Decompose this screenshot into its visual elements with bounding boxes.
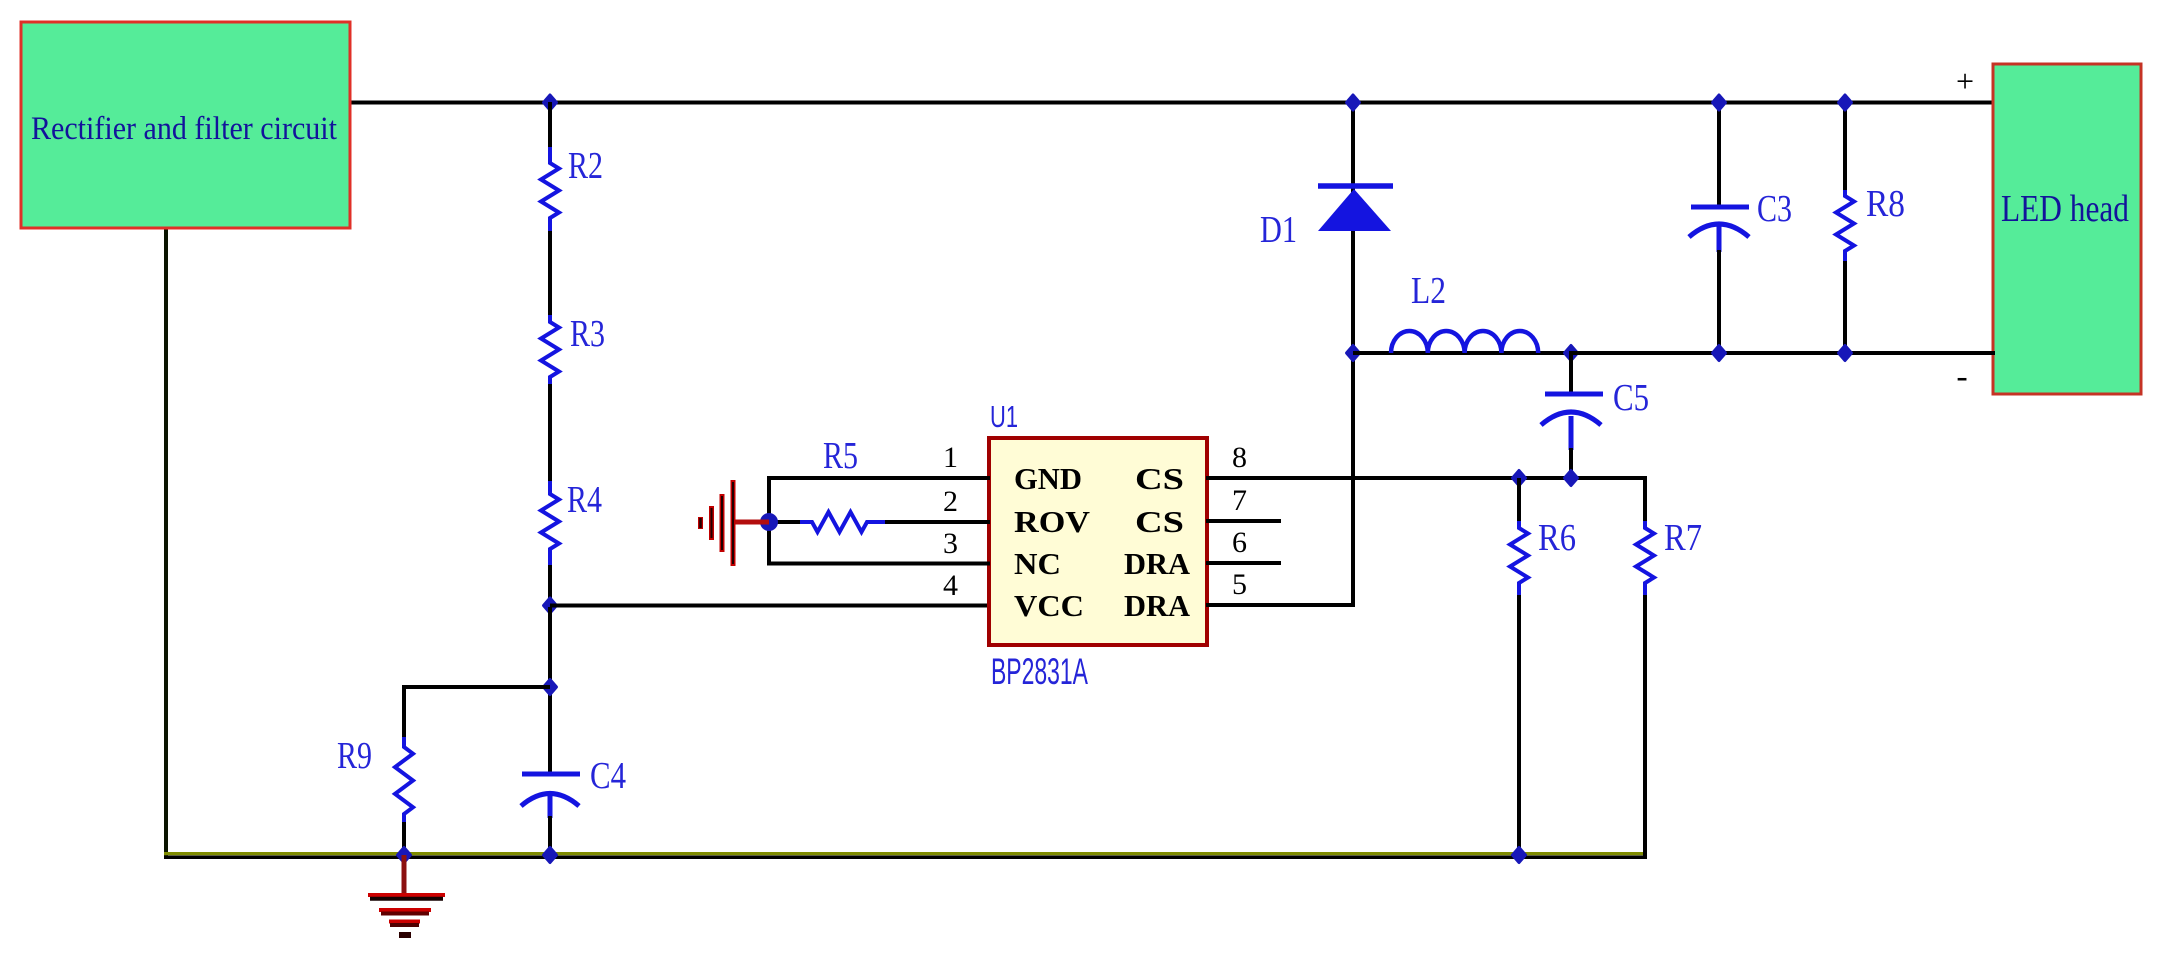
- svg-text:C5: C5: [1613, 377, 1649, 419]
- wire R9 branch vertical continuation: [548, 607, 552, 776]
- resistor R3: [541, 315, 559, 384]
- resistor R8: [1836, 190, 1854, 261]
- svg-text:NC: NC: [1014, 546, 1061, 581]
- svg-text:R5: R5: [823, 435, 858, 477]
- block Rectifier and filter circuit: [21, 22, 350, 228]
- svg-text:6: 6: [1232, 526, 1247, 559]
- svg-text:-: -: [1956, 358, 1967, 395]
- inductor L2: [1391, 331, 1538, 353]
- node bottom C4 junction: [544, 848, 557, 863]
- svg-text:1: 1: [943, 441, 958, 474]
- resistor R7: [1636, 521, 1654, 595]
- wire pin2: [769, 520, 802, 524]
- svg-text:3: 3: [943, 527, 958, 560]
- svg-text:L2: L2: [1411, 270, 1446, 312]
- svg-text:LED head: LED head: [2001, 188, 2129, 230]
- svg-text:+: +: [1956, 63, 1974, 99]
- wire pin7 stub: [1206, 519, 1281, 523]
- capacitor C5: [1569, 351, 1573, 394]
- svg-text:VCC: VCC: [1014, 588, 1084, 623]
- svg-text:DRA: DRA: [1124, 588, 1191, 623]
- wire bottom bus: [164, 855, 1647, 859]
- chip U1 body: [989, 438, 1207, 645]
- svg-text:8: 8: [1232, 441, 1247, 474]
- ground earth symbol: [402, 855, 407, 894]
- svg-text:D1: D1: [1260, 209, 1297, 251]
- svg-text:CS: CS: [1135, 461, 1184, 496]
- svg-text:5: 5: [1232, 568, 1247, 601]
- svg-text:BP2831A: BP2831A: [991, 651, 1088, 692]
- wire output minus bus: [1571, 351, 1995, 355]
- wire R9 branch horizontal: [404, 685, 550, 689]
- svg-text:Rectifier and filter circuit: Rectifier and filter circuit: [31, 111, 337, 147]
- node top D1 junction: [1347, 95, 1360, 110]
- resistor R6: [1510, 521, 1528, 595]
- node R9 branch junction: [544, 680, 557, 695]
- resistor R4: [541, 481, 559, 565]
- svg-text:U1: U1: [990, 399, 1018, 434]
- wire top bus: [350, 101, 1995, 105]
- wire R6 vertical: [1517, 478, 1521, 523]
- resistor R2: [541, 147, 559, 231]
- node L2 left junction: [1347, 346, 1360, 361]
- svg-text:R8: R8: [1866, 183, 1905, 225]
- svg-text:R7: R7: [1664, 517, 1702, 559]
- wire pin8: [1206, 476, 1645, 480]
- node R6 bottom junction: [1513, 848, 1526, 863]
- node R8 bottom junction: [1839, 346, 1852, 361]
- wire VCC pin4: [550, 604, 990, 608]
- svg-text:4: 4: [943, 569, 958, 602]
- wire L2 line: [1353, 351, 1571, 355]
- diode D1: [1318, 183, 1393, 189]
- node pin2 junction: [760, 513, 778, 531]
- svg-text:R9: R9: [337, 735, 372, 777]
- resistor R9: [395, 737, 413, 822]
- svg-text:DRA: DRA: [1124, 546, 1191, 581]
- wire R2 column vertical: [548, 102, 552, 149]
- node bottom R9 junction: [398, 848, 411, 863]
- node R8 top junction: [1839, 95, 1852, 110]
- svg-text:C3: C3: [1757, 188, 1792, 230]
- wire pins 1-3 bracket: [767, 476, 771, 566]
- wire R7 vertical: [1643, 476, 1647, 523]
- ground signal symbol at pin2: [733, 520, 769, 525]
- svg-text:R2: R2: [568, 145, 603, 187]
- svg-text:R6: R6: [1538, 517, 1576, 559]
- svg-text:R3: R3: [570, 313, 605, 355]
- wire pin6 stub: [1206, 561, 1281, 565]
- svg-text:ROV: ROV: [1014, 504, 1091, 539]
- node VCC junction: [544, 598, 557, 613]
- node C3 bottom junction: [1713, 346, 1726, 361]
- svg-text:C4: C4: [590, 755, 626, 797]
- wire pin1: [769, 476, 990, 480]
- wire R9 vertical: [402, 685, 406, 739]
- svg-text:2: 2: [943, 485, 958, 518]
- block LED head: [1993, 64, 2141, 394]
- capacitor C4: [522, 772, 580, 777]
- node L2 right junction: [1565, 346, 1578, 361]
- svg-text:CS: CS: [1135, 504, 1184, 539]
- svg-text:R4: R4: [567, 479, 602, 521]
- node R2 top junction: [544, 95, 557, 110]
- capacitor C3: [1717, 102, 1721, 207]
- svg-text:7: 7: [1232, 484, 1247, 517]
- wire pin3: [769, 562, 990, 566]
- node C5 bottom junction: [1565, 471, 1578, 486]
- resistor R5: [800, 512, 885, 532]
- wire switch node vertical: [1351, 102, 1355, 607]
- svg-text:GND: GND: [1014, 461, 1082, 496]
- wire pin5: [1206, 603, 1353, 607]
- node R6 top junction: [1513, 471, 1526, 486]
- wire left vertical from rectifier box: [164, 228, 168, 857]
- node C3 top junction: [1713, 95, 1726, 110]
- wire R8 vertical: [1843, 102, 1847, 192]
